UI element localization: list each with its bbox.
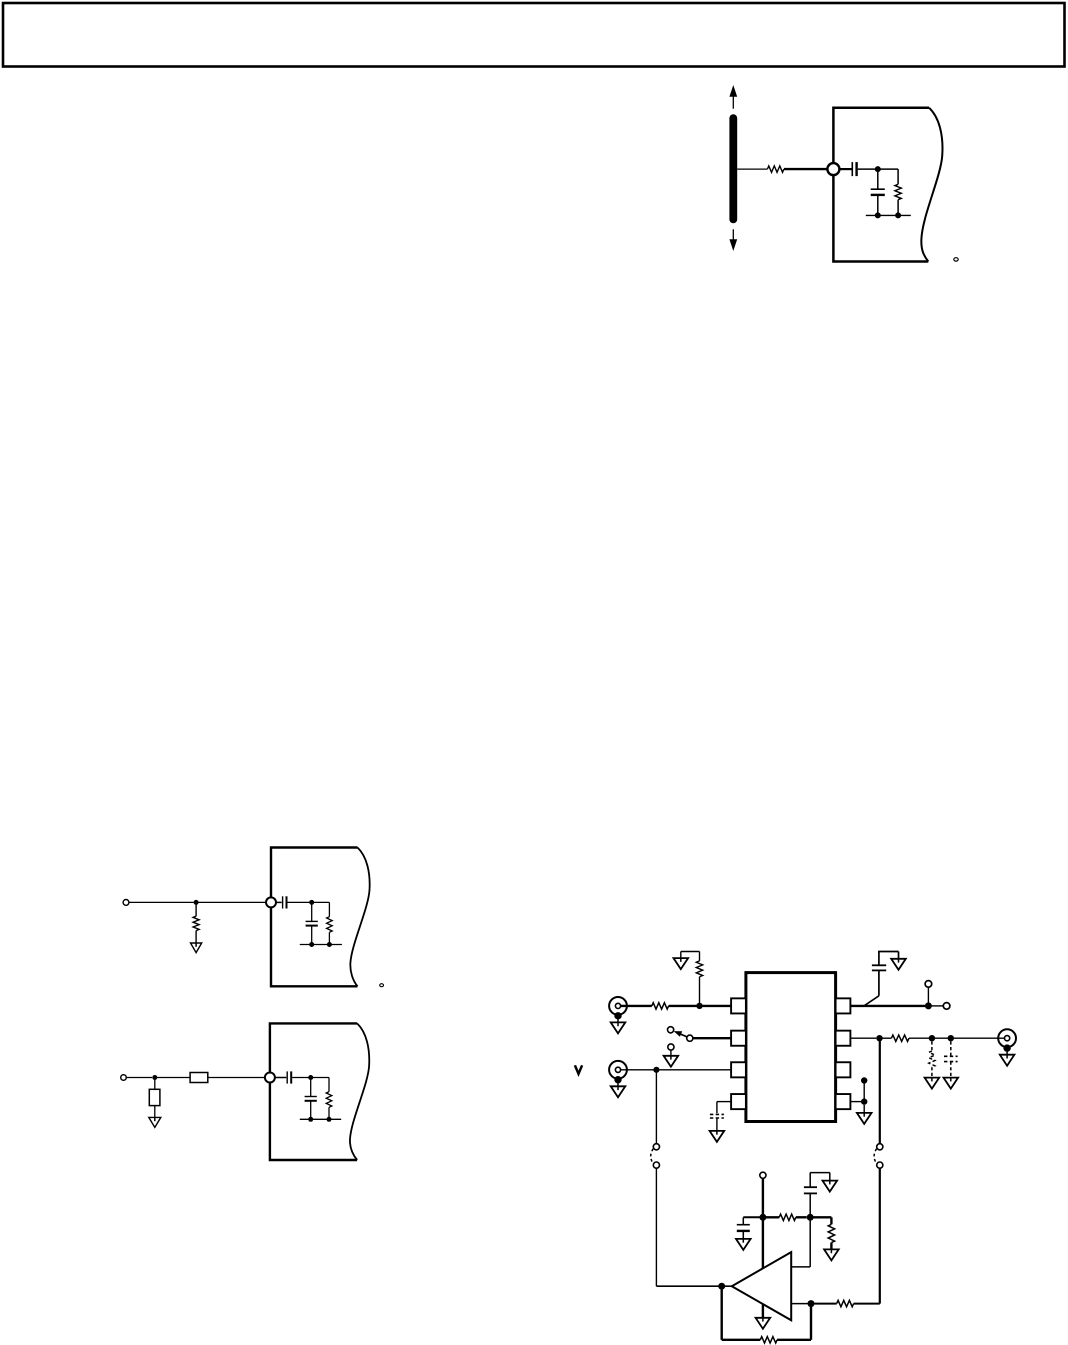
capacitor C1 (series) xyxy=(851,162,853,176)
switch S2 lower contact xyxy=(653,1162,659,1168)
junction node divider xyxy=(807,1214,814,1221)
feedback wire down xyxy=(721,1286,723,1340)
wire terminal to junction xyxy=(126,1077,152,1079)
wire R5 to BNC J3 xyxy=(909,1037,1004,1039)
BNC J2 ground xyxy=(614,1076,621,1083)
junction node load R xyxy=(929,1035,935,1041)
IC U1 right pin 8 xyxy=(836,998,851,1013)
wire R10 to switch S4 rail xyxy=(854,1303,880,1305)
junction node output xyxy=(718,1283,725,1290)
label V xyxy=(575,1065,582,1074)
wire C1 to junction xyxy=(858,168,878,170)
wire ref node to C6 xyxy=(743,1216,763,1218)
capacitor CA1 (series) xyxy=(282,896,284,908)
switch S1 lower contact xyxy=(668,1044,674,1050)
IC U1 right pin 5 xyxy=(836,1094,851,1109)
wire C4 to ground xyxy=(878,952,880,966)
wire pin 2 to switch S1 xyxy=(693,1037,731,1039)
internal common rail xyxy=(866,214,911,216)
wire junction to pin node xyxy=(196,901,266,903)
ground below U2 xyxy=(756,1318,771,1329)
IC U1 left pin 4 xyxy=(731,1094,746,1109)
ground at C6 xyxy=(736,1239,751,1250)
wire switch S4 down to R10 xyxy=(879,1168,881,1303)
wire U2 -input xyxy=(791,1303,807,1305)
resistor R9 (feedback) xyxy=(760,1337,777,1343)
resistor R5 (series output) xyxy=(891,1035,909,1041)
stub node above pin5 xyxy=(863,1081,865,1102)
circuit B pin node circle xyxy=(265,1073,275,1083)
junction node -input xyxy=(808,1300,815,1307)
switch S1 common xyxy=(687,1035,693,1041)
circuit B chip box (torn edge) xyxy=(270,1023,357,1160)
ground B xyxy=(149,1117,161,1127)
IC U1 right pin 7 xyxy=(836,1031,851,1046)
capacitor C4 xyxy=(872,964,886,966)
switch S2 upper contact xyxy=(653,1144,659,1150)
switch S4 lower contact xyxy=(877,1162,883,1168)
resistor RA (to ground) xyxy=(195,902,197,916)
wire junction to RB2 xyxy=(155,1077,190,1079)
junction node xyxy=(875,166,881,172)
switch S3 lever xyxy=(864,996,879,1006)
ground at C7 xyxy=(823,1181,838,1192)
junction node pin1 xyxy=(696,1003,702,1009)
wire node to C1 xyxy=(839,168,851,170)
wire ref node down to ground (hidden behind U2) xyxy=(762,1217,764,1318)
wire pin 8 output xyxy=(850,1005,925,1007)
footnote mark circle xyxy=(954,258,958,261)
circuit A pin node circle xyxy=(266,897,276,907)
wire node to R5 xyxy=(880,1037,892,1039)
test point above pin8 node xyxy=(925,981,932,988)
wire CA1 to junction xyxy=(288,901,312,903)
junction node pin8 xyxy=(925,1002,932,1009)
wire junction down to switch S2 xyxy=(655,1070,657,1144)
resistor R2 (shunt) xyxy=(895,184,901,199)
capacitor CA2 (shunt) xyxy=(311,902,313,921)
junction node xyxy=(309,900,314,905)
ground at C4 xyxy=(891,959,906,970)
capacitor CB1 (series) xyxy=(286,1071,288,1083)
antenna down arrow xyxy=(732,229,734,239)
antenna up arrow xyxy=(732,96,734,109)
wire terminal to junction xyxy=(129,901,194,903)
wire switch S2 to output rail xyxy=(655,1168,657,1286)
IC U1 right pin 6 xyxy=(836,1062,851,1077)
wire pin 5 reference xyxy=(850,1101,861,1103)
switch S4 lever (dashed) xyxy=(874,1149,877,1164)
switch S4 upper contact xyxy=(877,1144,883,1150)
junction node A xyxy=(194,900,199,905)
ground A xyxy=(191,943,202,953)
junction node pin7 xyxy=(876,1035,882,1041)
rail dot left xyxy=(309,942,314,947)
switch S1 upper contact xyxy=(668,1027,674,1033)
wire node to CA1 xyxy=(276,901,282,903)
chip outline box (torn edge) xyxy=(833,108,929,262)
BNC connector J1 xyxy=(609,997,627,1015)
op-amp U2 xyxy=(732,1252,791,1320)
wire node to CB1 xyxy=(275,1077,286,1079)
switch S1 lever arrow xyxy=(681,1034,687,1037)
wire pin 4 to parasitic cap xyxy=(717,1101,731,1103)
feedback rail left xyxy=(722,1339,761,1341)
IC U1 left pin 2 xyxy=(731,1031,746,1046)
IC U1 left pin 3 xyxy=(731,1062,746,1077)
junction node ref xyxy=(759,1214,766,1221)
circuit A internal rail xyxy=(300,944,342,946)
resistor R10 (gain input) xyxy=(837,1300,854,1306)
rail dot right xyxy=(327,1117,332,1122)
junction node load C xyxy=(948,1035,954,1041)
capacitor C6 (ref bypass) xyxy=(742,1217,744,1224)
wire J2 to pin 3 xyxy=(621,1069,732,1071)
header frame box xyxy=(3,3,1065,67)
rail dot left xyxy=(308,1117,313,1122)
rail junction dot left xyxy=(875,212,881,218)
circuit B input terminal xyxy=(121,1075,127,1081)
ground at S1 lower contact xyxy=(670,1050,672,1056)
resistor R8 (divider lower) xyxy=(810,1216,831,1218)
capacitor C5 (dashed load) xyxy=(950,1041,952,1056)
junction node pin5 xyxy=(861,1098,867,1104)
resistor RB1 (box, to ground) xyxy=(154,1078,156,1090)
wire RB2 to pin node xyxy=(208,1077,265,1079)
capacitor CB2 (shunt) xyxy=(310,1078,312,1097)
circuit A chip box (torn edge) xyxy=(271,848,358,987)
resistor RA2 (shunt) xyxy=(312,901,330,903)
IC U1 left pin 1 xyxy=(731,998,746,1013)
wire pin 7 to output node xyxy=(850,1037,876,1039)
circuit A input terminal xyxy=(123,900,129,906)
wire R1 to input node xyxy=(784,168,828,170)
resistor R1 xyxy=(767,166,784,172)
ground at pin5 xyxy=(863,1105,865,1113)
resistor R4 (series input) xyxy=(652,1003,669,1009)
wire junction to R2 branch xyxy=(878,168,898,170)
ground at C5 xyxy=(944,1078,959,1089)
junction node B xyxy=(152,1075,157,1080)
BNC connector J3 xyxy=(998,1029,1016,1047)
ground at R8 xyxy=(824,1249,839,1260)
wire J1 to R4 xyxy=(621,1005,652,1007)
feedback rail right xyxy=(777,1339,811,1341)
junction node pin3 wire xyxy=(653,1067,659,1073)
wire R4 to pin 1 xyxy=(669,1005,732,1007)
ground at C3 xyxy=(710,1131,725,1142)
input pin node circle xyxy=(827,163,839,175)
capacitor C2 (shunt) xyxy=(877,169,879,189)
BNC J3 ground xyxy=(1003,1044,1010,1051)
capacitor C3 (dashed, pin 4) xyxy=(710,1113,724,1115)
wire R3 to input node xyxy=(699,977,701,1006)
resistor R3 (bias) xyxy=(699,952,701,961)
IC U1 body xyxy=(746,973,836,1122)
ground at R6 xyxy=(925,1078,940,1089)
top-left bias ground xyxy=(681,951,700,953)
test point right of pin8 node xyxy=(932,1005,944,1007)
resistor RB3 (shunt) xyxy=(311,1077,329,1079)
resistor R7 (ref divider) xyxy=(763,1216,779,1218)
junction node xyxy=(308,1075,313,1080)
resistor R6 (dashed load) xyxy=(931,1041,933,1051)
wire CB1 to junction xyxy=(292,1077,311,1079)
wire -input down to feedback rail xyxy=(810,1304,812,1340)
capacitor C7 (divider bypass) xyxy=(809,1193,811,1217)
wire divider to op-amp +input xyxy=(809,1217,811,1267)
antenna element xyxy=(729,118,737,219)
reference input terminal xyxy=(760,1172,766,1178)
wire antenna to R1 xyxy=(737,168,767,170)
wire pin7 node down to switch S4 xyxy=(879,1038,881,1144)
wire -input to R10 xyxy=(815,1303,837,1305)
footnote mark circle xyxy=(380,984,384,987)
circuit B internal rail xyxy=(300,1118,341,1120)
switch S2 lever (dashed) xyxy=(651,1149,654,1164)
BNC J1 ground xyxy=(614,1012,621,1019)
wire terminal to ref node xyxy=(762,1178,764,1217)
rail junction dot right xyxy=(895,212,901,218)
rail dot right xyxy=(327,942,332,947)
resistor RB2 (box, series) xyxy=(190,1073,208,1083)
BNC connector J2 xyxy=(609,1061,627,1079)
wire output rail to U2 tip xyxy=(656,1285,731,1287)
